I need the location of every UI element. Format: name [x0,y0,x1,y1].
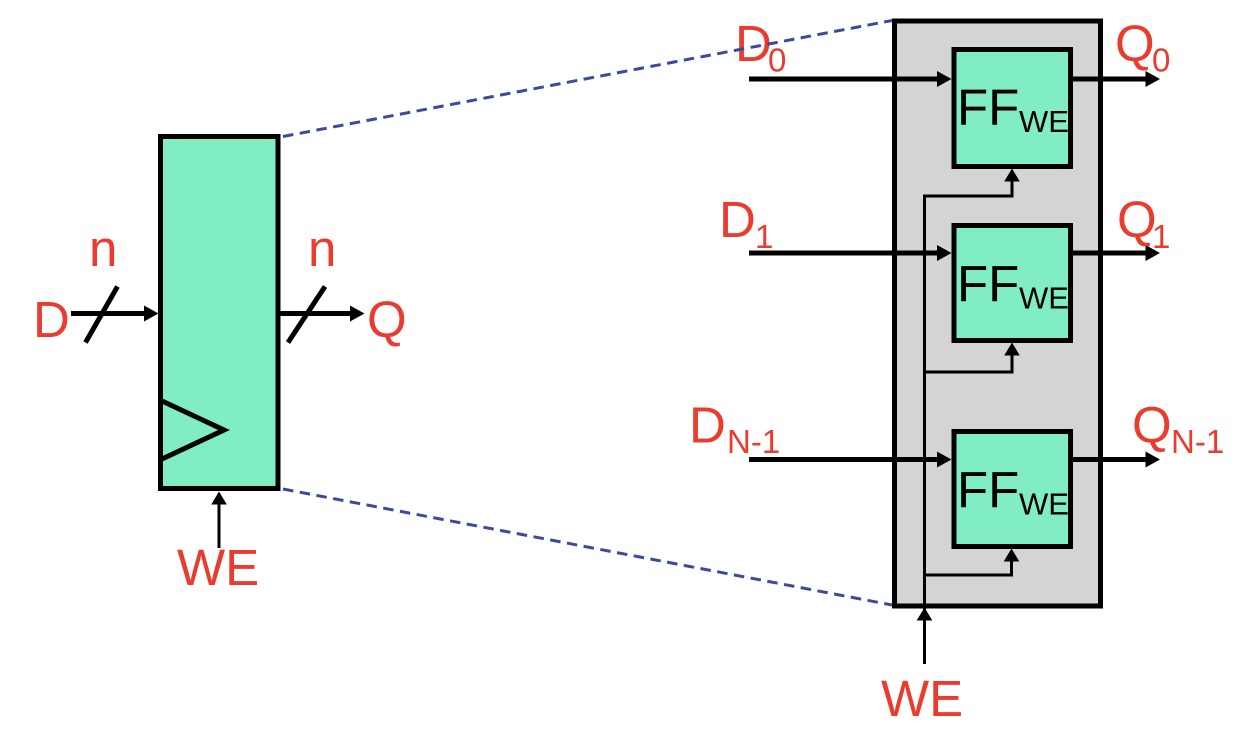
svg-text:WE: WE [1019,487,1069,522]
svg-text:Q: Q [367,291,407,348]
svg-text:FF: FF [957,462,1019,519]
svg-text:n: n [89,220,117,277]
svg-text:1: 1 [1152,218,1170,255]
svg-text:WE: WE [881,670,963,727]
svg-text:0: 0 [768,42,786,79]
svg-text:N-1: N-1 [1171,423,1224,460]
svg-text:WE: WE [1019,104,1069,139]
svg-text:D: D [735,15,772,72]
svg-text:1: 1 [755,218,773,255]
svg-text:WE: WE [1019,281,1069,316]
svg-text:D: D [719,191,756,248]
svg-text:D: D [689,397,726,454]
svg-text:Q: Q [1117,191,1157,248]
svg-text:0: 0 [1152,42,1170,79]
svg-text:N-1: N-1 [727,423,780,460]
svg-text:n: n [308,220,336,277]
svg-text:FF: FF [957,256,1019,313]
svg-text:WE: WE [177,539,259,596]
svg-text:Q: Q [1115,15,1155,72]
svg-text:Q: Q [1132,397,1172,454]
svg-text:FF: FF [957,79,1019,136]
svg-text:D: D [33,291,70,348]
